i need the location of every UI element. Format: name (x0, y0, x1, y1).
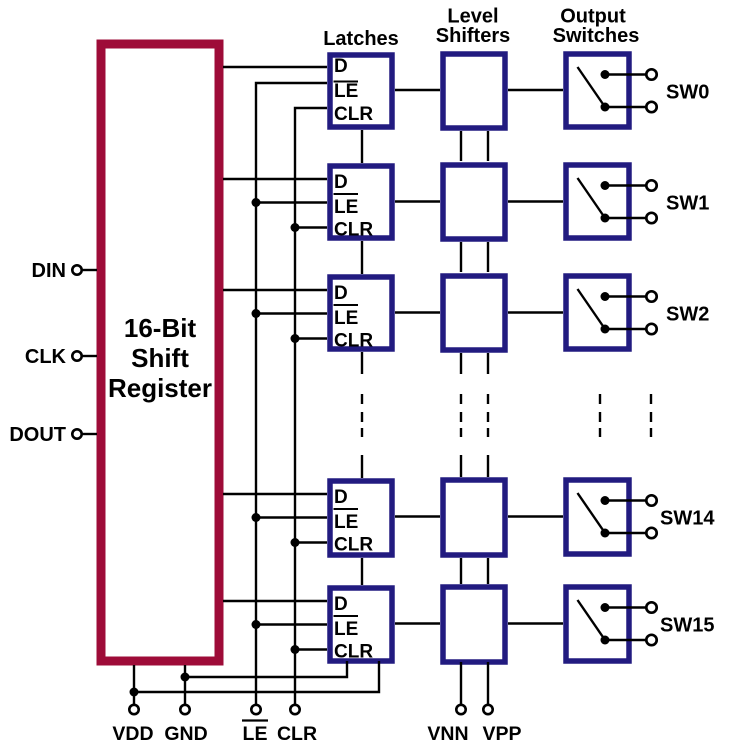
svg-text:D: D (334, 172, 348, 193)
wire latch L5 to level shifter LS5 (395, 622, 440, 624)
svg-text:CLR: CLR (334, 535, 373, 556)
svg-text:SW14: SW14 (660, 508, 715, 530)
svg-text:VNN: VNN (427, 723, 468, 745)
wire VNN rail LS4-LS5 (460, 558, 462, 584)
svg-text:LE: LE (334, 81, 358, 102)
DOUT output terminal (9, 424, 97, 446)
wire latch L2 to level shifter LS2 (395, 200, 440, 202)
wire LE tap row2 (256, 201, 327, 203)
VNN terminal (456, 705, 465, 714)
wires: D taps from shift register to latches (223, 67, 327, 601)
output switch SW1 (566, 165, 709, 238)
latch L4 (330, 481, 392, 556)
svg-text:CLR: CLR (334, 642, 373, 663)
svg-text:SW15: SW15 (660, 615, 714, 637)
VDD terminal wire (133, 665, 135, 704)
output switch SW2 (566, 276, 709, 349)
svg-text:VDD: VDD (112, 723, 153, 745)
svg-text:LE: LE (334, 619, 358, 640)
svg-text:SW0: SW0 (666, 82, 709, 104)
wire LE tap row5 (256, 623, 327, 625)
junction LE bus row3 (252, 309, 261, 318)
wire VNN rail LS2-LS3 (460, 242, 462, 272)
junction CLR bus row3 (291, 334, 300, 343)
latch L2 (330, 166, 392, 241)
junction dot GND (181, 673, 190, 682)
svg-text:CLR: CLR (277, 723, 317, 745)
DIN input terminal (32, 260, 97, 282)
wire level shifter LS2 to switch SW1 (508, 200, 563, 202)
svg-text:D: D (334, 594, 348, 615)
wire VPP rail LS4-LS5 (487, 558, 489, 584)
svg-text:LE: LE (243, 723, 268, 745)
junction LE bus row2 (252, 198, 261, 207)
level shifter LS3 (443, 276, 505, 350)
svg-text:LE: LE (334, 308, 358, 329)
svg-text:D: D (334, 487, 348, 508)
wire VPP rail LS3 down stub (487, 353, 489, 374)
VPP terminal wire (487, 662, 489, 704)
svg-text:LE: LE (334, 512, 358, 533)
svg-text:16-Bit: 16-Bit (124, 313, 197, 343)
latch L5 bottom pin to GND rail (185, 661, 347, 677)
wire CLR tap row4 (295, 541, 327, 543)
wire latch L2 to latch L3 (361, 241, 363, 274)
wire level shifter LS4 to switch SW14 (508, 515, 563, 517)
wire D row5 (223, 600, 327, 602)
junction LE bus row5 (252, 620, 261, 629)
svg-text:DIN: DIN (32, 260, 66, 282)
svg-text:GND: GND (164, 723, 207, 745)
junction LE bus row4 (252, 513, 261, 522)
wire level shifter LS5 to switch SW15 (508, 622, 563, 624)
output switch SW14 (566, 480, 715, 554)
svg-text:Shift: Shift (131, 343, 189, 373)
wire level shifter LS1 to switch SW0 (508, 89, 563, 91)
svg-text:Shifters: Shifters (436, 25, 510, 47)
latch L3 (330, 277, 392, 352)
svg-text:SW1: SW1 (666, 193, 709, 215)
wire latch L3 to level shifter LS3 (395, 311, 440, 313)
VPP terminal (483, 705, 492, 714)
level shifter LS4 (443, 480, 505, 555)
wire CLR tap row2 (295, 226, 327, 228)
svg-text:D: D (334, 56, 348, 77)
wire latch L4 to level shifter LS4 (395, 515, 440, 517)
svg-text:D: D (334, 283, 348, 304)
svg-text:VPP: VPP (482, 723, 521, 745)
wire D row3 (223, 289, 327, 291)
junction CLR bus row5 (291, 645, 300, 654)
wire latch L1 to latch L2 (361, 130, 363, 163)
latch L5 bottom pin to VDD rail (134, 661, 379, 692)
output switch SW15 (566, 587, 714, 661)
VDD terminal (129, 705, 138, 714)
latch column dashed continuation (361, 394, 363, 437)
wire latch L4 to latch L5 (361, 558, 363, 585)
svg-text:Latches: Latches (323, 28, 399, 50)
wire VNN rail LS3 down stub (460, 353, 462, 374)
GND terminal (180, 705, 189, 714)
output switch SW0 (566, 54, 709, 127)
wire latch L4 up stub (361, 455, 363, 478)
VNN terminal wire (460, 662, 462, 704)
16-bit shift register U1 (101, 44, 219, 661)
wire D row1 (223, 66, 327, 68)
latch L5 (330, 588, 392, 663)
level shifter LS1 (443, 54, 505, 128)
svg-text:Register: Register (108, 373, 212, 403)
svg-text:CLK: CLK (25, 346, 67, 368)
svg-text:LE: LE (334, 197, 358, 218)
level shifter LS2 (443, 165, 505, 239)
svg-text:CLR: CLR (334, 104, 373, 125)
wire VPP rail LS1-LS2 (487, 131, 489, 161)
wire level shifter LS3 to switch SW2 (508, 311, 563, 313)
level shifter column dashed continuation (461, 394, 488, 437)
junction CLR bus row4 (291, 538, 300, 547)
wire VPP rail LS2-LS3 (487, 242, 489, 272)
switch column dashed continuation (600, 394, 651, 437)
junction dot VDD (130, 688, 139, 697)
wire VNN rail LS4 up stub (460, 455, 462, 477)
LE terminal (251, 705, 260, 714)
wire latch L1 to level shifter LS1 (395, 89, 440, 91)
level shifter LS5 (443, 587, 505, 662)
wire CLR tap row3 (295, 337, 327, 339)
svg-text:CLR: CLR (334, 331, 373, 352)
svg-text:SW2: SW2 (666, 304, 709, 326)
wire VNN rail LS1-LS2 (460, 131, 462, 161)
latch L1 (330, 55, 392, 127)
wire LE tap row4 (256, 516, 327, 518)
wire VPP rail LS4 up stub (487, 455, 489, 477)
wire D row2 (223, 178, 327, 180)
junction CLR bus row2 (291, 223, 300, 232)
wire CLR tap row5 (295, 648, 327, 650)
svg-text:DOUT: DOUT (9, 424, 66, 446)
GND terminal wire (184, 665, 186, 704)
wire D row4 (223, 493, 327, 495)
wire latch L3 down stub (361, 352, 363, 374)
CLR terminal (290, 705, 299, 714)
wire LE tap row3 (256, 312, 327, 314)
CLK input terminal (25, 346, 97, 368)
svg-text:Switches: Switches (553, 25, 640, 47)
CLR bus vertical (295, 108, 327, 704)
LE bus vertical (256, 83, 327, 704)
svg-text:CLR: CLR (334, 220, 373, 241)
